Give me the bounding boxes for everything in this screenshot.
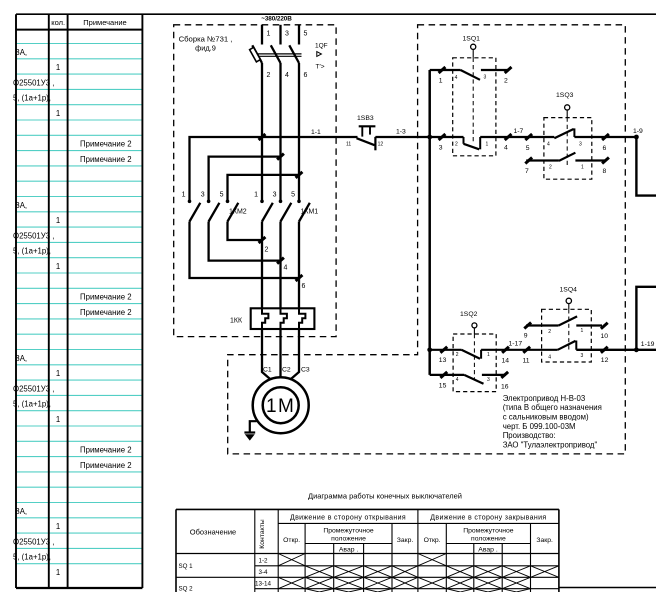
svg-text:1SQ1: 1SQ1 bbox=[463, 35, 481, 42]
wire: 1KK to motor terminal C1 bbox=[262, 329, 271, 380]
svg-text:13-14: 13-14 bbox=[255, 581, 272, 588]
svg-text:Примечание 2: Примечание 2 bbox=[80, 293, 132, 302]
svg-text:1: 1 bbox=[56, 109, 60, 118]
svg-text:1SQ2: 1SQ2 bbox=[460, 311, 478, 318]
svg-text:Примечание: Примечание bbox=[83, 18, 126, 27]
svg-text:1: 1 bbox=[486, 141, 489, 147]
svg-text:16: 16 bbox=[501, 384, 509, 391]
svg-text:SQ 2: SQ 2 bbox=[179, 586, 194, 592]
svg-text:1: 1 bbox=[439, 77, 443, 84]
1SQ1 contact 1-2 (open) bbox=[430, 67, 512, 85]
ground (motor earth) bbox=[244, 421, 256, 440]
svg-text:1: 1 bbox=[581, 328, 584, 334]
svg-text:14: 14 bbox=[502, 357, 510, 364]
svg-text:1: 1 bbox=[581, 165, 584, 171]
svg-text:1: 1 bbox=[254, 192, 258, 199]
svg-text:11: 11 bbox=[346, 141, 351, 147]
svg-text:Движение в сторону закрывания: Движение в сторону закрывания bbox=[430, 514, 546, 521]
limit switch 1SQ4 (dashed box, cam) bbox=[542, 286, 592, 362]
svg-text:ЗА,: ЗА, bbox=[15, 354, 27, 363]
svg-text:2: 2 bbox=[456, 352, 459, 358]
wire: motor lead W bbox=[298, 222, 300, 309]
svg-text:11: 11 bbox=[523, 357, 530, 364]
wire: phase L3 vertical (breaker to 1KM1 pole 5) bbox=[298, 63, 300, 202]
svg-text:2: 2 bbox=[265, 247, 269, 254]
svg-text:Движение в сторону открывания: Движение в сторону открывания bbox=[290, 514, 406, 521]
svg-text:5, (1а+1р),: 5, (1а+1р), bbox=[13, 400, 51, 409]
svg-text:1-7: 1-7 bbox=[514, 128, 524, 135]
svg-text:T′>: T′> bbox=[316, 64, 325, 71]
svg-text:ЗАО "Тулаэлектропривод": ЗАО "Тулаэлектропривод" bbox=[503, 441, 598, 450]
wire: internal bus riser (node 1-3 up to 1SQ1 contact 1 / down to 1SQ2) bbox=[428, 70, 431, 375]
svg-text:5, (1а+1р),: 5, (1а+1р), bbox=[13, 247, 51, 256]
svg-text:1: 1 bbox=[56, 369, 60, 378]
wire: motor lead U (1KM1 pole out to 1KK) bbox=[261, 222, 263, 309]
svg-text:5, (1а+1р),: 5, (1а+1р), bbox=[13, 94, 51, 103]
wire: 1KM2 pole 5 output to node 2 bbox=[228, 222, 269, 254]
1SQ4 contact 11-12 (closed) on wire 1-19 bbox=[548, 341, 656, 364]
svg-text:положение: положение bbox=[471, 536, 506, 543]
svg-text:Промежуточное: Промежуточное bbox=[323, 527, 374, 534]
table: limit switch operation diagram bbox=[176, 492, 559, 592]
svg-text:1КМ1: 1КМ1 bbox=[301, 208, 319, 215]
svg-text:фид.9: фид.9 bbox=[195, 43, 216, 52]
svg-text:12: 12 bbox=[378, 141, 384, 147]
svg-text:4: 4 bbox=[284, 265, 288, 272]
1SQ3 contact 5-6 (closed) on wire 1-7/1-9 bbox=[525, 128, 636, 152]
wire: tap from L3 to 1KM2 pole 5 bbox=[228, 172, 303, 202]
node: supply ~380/220V bbox=[261, 15, 292, 22]
enclosure: electric actuator N-B-03 (dashed outline incl. motor bay) bbox=[228, 25, 626, 454]
svg-text:черт. Б 099.100-03М: черт. Б 099.100-03М bbox=[503, 422, 576, 431]
svg-text:ЗА,: ЗА, bbox=[15, 507, 27, 516]
limit switch 1SQ3 (dashed box, cam) bbox=[544, 92, 592, 179]
svg-text:Примечание 2: Примечание 2 bbox=[80, 461, 132, 470]
svg-text:(типа В общего назначения: (типа В общего назначения bbox=[503, 403, 602, 412]
svg-text:Откр.: Откр. bbox=[283, 537, 300, 544]
svg-text:5, (1а+1р),: 5, (1а+1р), bbox=[13, 553, 51, 562]
svg-text:3: 3 bbox=[273, 192, 277, 199]
circuit breaker 1QF blades and linkage bbox=[252, 45, 301, 63]
wire: tap from L1 at node 1-1 to 1KM2 pole 1 bbox=[190, 134, 266, 202]
svg-text:О25501У3 ,: О25501У3 , bbox=[13, 537, 54, 546]
svg-text:О25501У3 ,: О25501У3 , bbox=[13, 231, 54, 240]
svg-text:кол.: кол. bbox=[51, 18, 65, 27]
1SQ4 contact 9-10 (open stub) bbox=[524, 316, 608, 340]
svg-text:13: 13 bbox=[439, 357, 447, 364]
svg-text:О25501У3 ,: О25501У3 , bbox=[13, 384, 54, 393]
svg-text:4: 4 bbox=[547, 141, 550, 147]
svg-text:2: 2 bbox=[267, 72, 271, 79]
svg-text:1: 1 bbox=[56, 522, 60, 531]
svg-text:5: 5 bbox=[526, 145, 530, 152]
svg-text:5: 5 bbox=[291, 192, 295, 199]
svg-text:9: 9 bbox=[524, 332, 528, 339]
svg-text:15: 15 bbox=[439, 383, 447, 390]
wire: drawing frame bottom rule (right of table) bbox=[559, 587, 656, 589]
svg-text:4: 4 bbox=[548, 355, 551, 361]
wire: phase L1 vertical (breaker to 1KM1 pole 1) bbox=[261, 63, 263, 202]
svg-text:1: 1 bbox=[56, 216, 60, 225]
wire: motor lead V bbox=[279, 222, 281, 309]
contactor 1KM1 poles 1,3,5 bbox=[254, 192, 318, 222]
svg-text:1-2: 1-2 bbox=[258, 558, 268, 565]
wire 1-1: starter output to button 1SB3 bbox=[262, 129, 358, 137]
1SQ1 contact 3-4 (closed) on wire 1-3/1-7 bbox=[430, 134, 529, 152]
svg-text:3: 3 bbox=[285, 31, 289, 38]
svg-text:1SQ3: 1SQ3 bbox=[556, 92, 574, 99]
circuit breaker 1QF handle bbox=[250, 47, 261, 62]
svg-text:4: 4 bbox=[285, 72, 289, 79]
svg-text:с сальниковым вводом): с сальниковым вводом) bbox=[503, 413, 589, 422]
wire 1-9: to terminal block (exits right) bbox=[633, 128, 656, 196]
circuit breaker QF output terminals 2,4,6 bbox=[267, 72, 308, 79]
svg-text:С3: С3 bbox=[301, 367, 310, 374]
1SQ3 contact 7-8 (open stub) bbox=[525, 153, 609, 175]
svg-text:Примечание 2: Примечание 2 bbox=[80, 446, 132, 455]
svg-text:О25501У3 ,: О25501У3 , bbox=[13, 78, 54, 87]
svg-text:Откр.: Откр. bbox=[424, 537, 441, 544]
svg-text:12: 12 bbox=[601, 357, 609, 364]
motor 1M bbox=[253, 377, 309, 433]
svg-text:1: 1 bbox=[56, 568, 60, 577]
svg-text:Примечание 2: Примечание 2 bbox=[80, 140, 132, 149]
svg-text:3-4: 3-4 bbox=[258, 569, 268, 576]
svg-text:4: 4 bbox=[456, 377, 459, 383]
svg-text:5: 5 bbox=[304, 31, 308, 38]
label: breaker 1QF designation and trip symbols bbox=[315, 43, 328, 71]
svg-text:6: 6 bbox=[304, 72, 308, 79]
svg-text:3: 3 bbox=[484, 74, 487, 80]
svg-text:3: 3 bbox=[487, 377, 490, 383]
wire 1-7 label bbox=[514, 128, 524, 135]
circuit breaker QF input terminals 1,3,5 bbox=[262, 25, 308, 45]
svg-text:Примечание 2: Примечание 2 bbox=[80, 308, 132, 317]
svg-text:С2: С2 bbox=[282, 367, 291, 374]
svg-text:2: 2 bbox=[549, 165, 552, 171]
svg-text:3: 3 bbox=[201, 192, 205, 199]
svg-text:1SB3: 1SB3 bbox=[357, 115, 374, 122]
svg-text:10: 10 bbox=[601, 333, 609, 340]
pushbutton 1SB3 (NC mushroom) bbox=[346, 115, 383, 151]
svg-text:Контакты: Контакты bbox=[259, 519, 266, 548]
svg-text:ЗА,: ЗА, bbox=[15, 48, 27, 57]
svg-text:Диаграмма работы конечных выкл: Диаграмма работы конечных выключателей bbox=[308, 492, 462, 501]
limit switch 1SQ2 (dashed box, cam) bbox=[453, 311, 496, 392]
svg-text:положение: положение bbox=[331, 536, 366, 543]
svg-text:1-19: 1-19 bbox=[641, 341, 655, 348]
svg-text:1КМ2: 1КМ2 bbox=[229, 208, 247, 215]
svg-text:1-9: 1-9 bbox=[633, 128, 643, 135]
svg-text:Электропривод Н-В-03: Электропривод Н-В-03 bbox=[503, 394, 586, 403]
svg-text:2: 2 bbox=[548, 329, 551, 335]
svg-text:2: 2 bbox=[455, 141, 458, 147]
wire: phase L2 vertical (breaker to 1KM1 pole 3) bbox=[279, 63, 281, 202]
label: motor terminals C1 C2 C3 bbox=[263, 367, 310, 374]
svg-text:1М: 1М bbox=[266, 396, 295, 417]
svg-text:1SQ4: 1SQ4 bbox=[560, 286, 578, 293]
svg-text:1: 1 bbox=[182, 192, 186, 199]
limit switch 1SQ1 (dashed box, cam) bbox=[453, 35, 496, 156]
svg-text:7: 7 bbox=[525, 168, 529, 175]
svg-text:5: 5 bbox=[220, 192, 224, 199]
svg-text:1КК: 1КК bbox=[230, 318, 243, 325]
enclosure: starter cabinet Sborka No731 fid.9 (dashed) bbox=[174, 25, 336, 337]
svg-text:Сборка №731 ,: Сборка №731 , bbox=[179, 34, 233, 43]
svg-text:Промежуточное: Промежуточное bbox=[463, 527, 514, 534]
svg-text:1-17: 1-17 bbox=[509, 340, 523, 347]
wire: 1KK to motor terminal C2 bbox=[279, 329, 281, 378]
wire 1-17 label and terminal 11 bbox=[509, 340, 531, 364]
svg-text:Закр.: Закр. bbox=[536, 537, 553, 544]
svg-text:1: 1 bbox=[56, 63, 60, 72]
svg-text:ЗА,: ЗА, bbox=[15, 201, 27, 210]
wire: 1KM2 pole 1 output to node 6 bbox=[190, 222, 306, 291]
svg-text:1QF: 1QF bbox=[315, 43, 328, 50]
svg-text:1: 1 bbox=[267, 31, 271, 38]
svg-text:Авар .: Авар . bbox=[339, 547, 359, 554]
svg-text:2: 2 bbox=[504, 78, 508, 85]
svg-text:1: 1 bbox=[487, 352, 490, 358]
svg-text:3: 3 bbox=[581, 353, 584, 359]
svg-text:1-1: 1-1 bbox=[311, 129, 321, 136]
1SQ2 contact 13-14 (closed) on wire 1-17 bbox=[427, 347, 557, 365]
wire 1-19: junction and exit right bbox=[634, 287, 656, 352]
table: parts list (kol./primechanie) bbox=[13, 14, 142, 588]
svg-text:4: 4 bbox=[455, 75, 458, 81]
svg-text:4: 4 bbox=[504, 145, 508, 152]
svg-text:Закр.: Закр. bbox=[397, 537, 414, 544]
svg-text:3: 3 bbox=[579, 141, 582, 147]
1SQ2 contact 15-16 (open) bbox=[430, 372, 509, 391]
thermal overload relay 1KK bbox=[230, 308, 314, 329]
svg-text:3: 3 bbox=[439, 145, 443, 152]
svg-text:Авар .: Авар . bbox=[478, 547, 498, 554]
wire: tap from L2 to 1KM2 pole 3 bbox=[209, 154, 284, 202]
svg-text:1-3: 1-3 bbox=[396, 129, 406, 136]
svg-text:1: 1 bbox=[56, 262, 60, 271]
svg-text:6: 6 bbox=[603, 145, 607, 152]
contactor 1KM2 poles 1,3,5 bbox=[182, 192, 247, 222]
svg-text:~380/220В: ~380/220В bbox=[261, 15, 292, 22]
svg-text:SQ 1: SQ 1 bbox=[179, 563, 194, 570]
svg-text:8: 8 bbox=[603, 168, 607, 175]
wire: 1KM2 pole 3 output to node 4 bbox=[209, 222, 288, 272]
wire: drawing frame top rule bbox=[16, 13, 656, 15]
svg-text:Примечание 2: Примечание 2 bbox=[80, 155, 132, 164]
svg-text:С1: С1 bbox=[263, 367, 272, 374]
svg-text:Обозначение: Обозначение bbox=[190, 528, 236, 537]
label: actuator type text block bbox=[503, 394, 602, 450]
svg-text:6: 6 bbox=[302, 283, 306, 290]
svg-text:Производство:: Производство: bbox=[503, 431, 556, 440]
wire 1-3: button to actuator terminal bbox=[375, 129, 432, 140]
wire: 1KK to motor terminal C3 bbox=[290, 329, 299, 380]
svg-text:1: 1 bbox=[56, 415, 60, 424]
